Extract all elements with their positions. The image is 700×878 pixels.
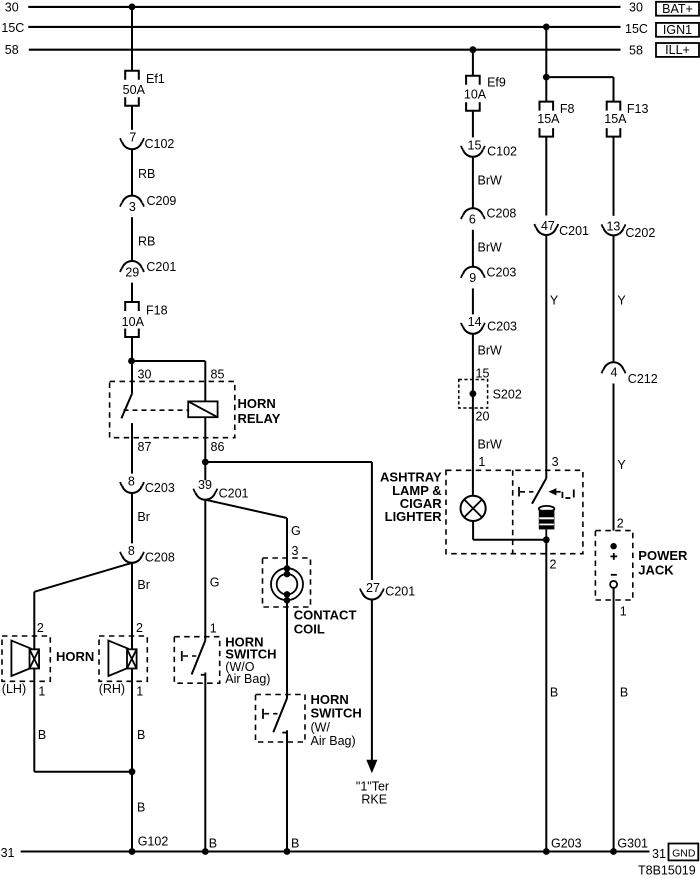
svg-text:50A: 50A (123, 83, 146, 97)
svg-text:14: 14 (468, 315, 482, 329)
svg-text:20: 20 (476, 410, 490, 424)
svg-text:C201: C201 (385, 585, 415, 599)
svg-text:15: 15 (468, 138, 482, 152)
svg-text:87: 87 (138, 440, 152, 454)
svg-text:C201: C201 (559, 224, 589, 238)
svg-text:RB: RB (138, 235, 155, 249)
svg-text:B: B (209, 837, 217, 851)
svg-text:1: 1 (620, 604, 627, 618)
svg-text:31: 31 (1, 846, 15, 860)
svg-text:B: B (38, 728, 46, 742)
svg-text:15: 15 (476, 367, 490, 381)
svg-text:15A: 15A (537, 112, 560, 126)
svg-text:G301: G301 (617, 836, 648, 850)
svg-text:Br: Br (137, 510, 150, 524)
svg-text:C102: C102 (487, 145, 517, 159)
svg-text:C203: C203 (145, 481, 175, 495)
svg-text:3: 3 (292, 544, 299, 558)
svg-text:B: B (137, 801, 145, 815)
svg-text:Br: Br (137, 578, 150, 592)
svg-text:1: 1 (478, 455, 485, 469)
svg-text:30: 30 (5, 0, 19, 14)
svg-text:29: 29 (125, 266, 139, 280)
svg-text:RKE: RKE (361, 793, 387, 807)
svg-text:3: 3 (129, 200, 136, 214)
svg-text:JACK: JACK (638, 563, 674, 578)
svg-text:B: B (291, 837, 299, 851)
svg-text:1: 1 (136, 685, 143, 699)
svg-text:3: 3 (552, 455, 559, 469)
svg-text:POWER: POWER (638, 548, 688, 563)
svg-text:BrW: BrW (478, 174, 503, 188)
svg-text:9: 9 (469, 271, 476, 285)
svg-text:B: B (620, 685, 628, 699)
svg-text:C212: C212 (628, 372, 658, 386)
svg-text:Y: Y (617, 458, 626, 472)
svg-text:2: 2 (550, 557, 557, 571)
svg-text:85: 85 (211, 368, 225, 382)
svg-text:C201: C201 (219, 487, 249, 501)
svg-text:10A: 10A (122, 315, 145, 329)
svg-text:ILL+: ILL+ (665, 43, 690, 57)
svg-text:Y: Y (617, 293, 626, 307)
svg-text:Air Bag): Air Bag) (311, 734, 356, 748)
svg-text:HORN: HORN (56, 649, 94, 664)
svg-text:8: 8 (128, 544, 135, 558)
svg-text:2: 2 (37, 621, 44, 635)
svg-text:IGN1: IGN1 (663, 23, 692, 37)
svg-text:BrW: BrW (478, 437, 503, 451)
svg-text:15C: 15C (1, 21, 24, 35)
svg-text:13: 13 (606, 220, 620, 234)
svg-text:7: 7 (129, 130, 136, 144)
svg-text:C203: C203 (487, 265, 517, 279)
svg-text:31: 31 (652, 847, 666, 861)
svg-text:1: 1 (38, 685, 45, 699)
svg-text:27: 27 (366, 581, 380, 595)
svg-text:4: 4 (611, 365, 618, 379)
svg-text:BrW: BrW (478, 343, 503, 357)
svg-text:(LH): (LH) (2, 682, 26, 696)
svg-text:6: 6 (469, 213, 476, 227)
svg-text:RB: RB (138, 167, 155, 181)
svg-text:G: G (291, 524, 301, 538)
svg-text:RELAY: RELAY (238, 411, 281, 426)
svg-text:39: 39 (198, 478, 212, 492)
svg-text:T8B15019: T8B15019 (638, 864, 696, 878)
svg-text:F13: F13 (627, 102, 649, 116)
svg-text:F8: F8 (560, 102, 575, 116)
svg-text:47: 47 (541, 219, 555, 233)
svg-text:C203: C203 (487, 320, 517, 334)
svg-text:58: 58 (629, 44, 643, 58)
svg-text:B: B (137, 728, 145, 742)
svg-text:30: 30 (629, 0, 643, 14)
svg-text:BrW: BrW (478, 241, 503, 255)
svg-text:10A: 10A (464, 88, 487, 102)
svg-text:2: 2 (617, 516, 624, 530)
svg-text:C102: C102 (145, 137, 175, 151)
svg-text:"1"Ter: "1"Ter (356, 779, 389, 793)
svg-text:C208: C208 (145, 551, 175, 565)
svg-text:(W/: (W/ (311, 721, 331, 735)
svg-text:S202: S202 (493, 387, 522, 401)
svg-text:C202: C202 (625, 226, 655, 240)
svg-text:Ef1: Ef1 (146, 72, 165, 86)
svg-text:1: 1 (210, 621, 217, 635)
svg-text:B: B (550, 685, 558, 699)
svg-text:Air Bag): Air Bag) (225, 672, 270, 686)
svg-text:G102: G102 (138, 835, 169, 849)
svg-text:BAT+: BAT+ (662, 2, 693, 16)
svg-text:HORN: HORN (238, 396, 276, 411)
svg-text:58: 58 (5, 43, 19, 57)
svg-text:F18: F18 (146, 304, 168, 318)
svg-text:COIL: COIL (294, 622, 325, 637)
svg-text:G203: G203 (551, 836, 582, 850)
svg-text:30: 30 (138, 368, 152, 382)
svg-text:C201: C201 (146, 260, 176, 274)
svg-text:Ef9: Ef9 (487, 76, 506, 90)
svg-text:15A: 15A (604, 112, 627, 126)
svg-text:15C: 15C (625, 22, 648, 36)
svg-text:(RH): (RH) (99, 682, 125, 696)
svg-text:Y: Y (550, 293, 559, 307)
svg-text:C208: C208 (487, 207, 517, 221)
svg-text:CONTACT: CONTACT (294, 608, 357, 623)
svg-text:LIGHTER: LIGHTER (385, 509, 443, 524)
svg-text:C209: C209 (147, 194, 177, 208)
svg-text:SWITCH: SWITCH (311, 706, 362, 721)
svg-text:86: 86 (211, 440, 225, 454)
svg-text:G: G (210, 576, 220, 590)
svg-text:GND: GND (672, 847, 696, 859)
svg-text:2: 2 (136, 621, 143, 635)
svg-text:8: 8 (128, 474, 135, 488)
